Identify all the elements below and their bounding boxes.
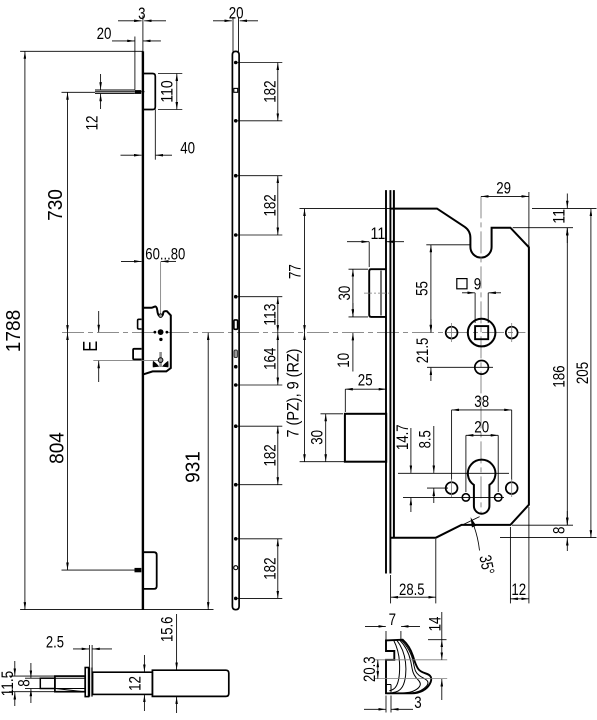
svg-text:186: 186 xyxy=(549,365,568,387)
svg-text:12: 12 xyxy=(82,116,101,131)
svg-text:8: 8 xyxy=(14,679,33,686)
square follower label xyxy=(457,279,467,289)
dim 182 b xyxy=(277,176,279,235)
svg-text:7 (PZ), 9 (RZ): 7 (PZ), 9 (RZ) xyxy=(284,349,303,438)
dim 8 (detail) xyxy=(30,663,32,678)
svg-text:10: 10 xyxy=(334,353,353,368)
screw holes (cylinder level) xyxy=(446,482,458,494)
detail head: step lines xyxy=(386,684,391,686)
vertical centerline xyxy=(480,196,482,514)
dim 8 (bottom right) xyxy=(566,511,568,525)
dim 11 (latch protrusion) xyxy=(368,242,370,267)
nut (follower) xyxy=(468,319,496,347)
svg-text:804: 804 xyxy=(47,432,69,464)
top shoot-bolt rod xyxy=(95,89,135,91)
screw holes (nut level) xyxy=(446,327,458,339)
dim 9 (square) xyxy=(474,293,476,323)
dim 182 a xyxy=(277,63,279,121)
svg-text:11: 11 xyxy=(371,224,386,243)
dim 730 xyxy=(67,92,69,332)
lock case outline xyxy=(390,209,529,538)
svg-text:205: 205 xyxy=(573,362,592,384)
small holes beside cylinder xyxy=(462,494,469,501)
35 deg chamfer extension xyxy=(447,517,480,533)
svg-text:25: 25 xyxy=(358,371,373,390)
dim 14 (detail) xyxy=(428,639,447,641)
dim 12 (rod) xyxy=(100,74,102,90)
svg-text:60...80: 60...80 xyxy=(145,245,185,264)
dim 20 (small holes) xyxy=(465,435,467,492)
dim 25 (bolt throw) xyxy=(344,389,346,412)
housing back extension xyxy=(154,110,156,160)
svg-text:12: 12 xyxy=(511,580,526,599)
dim 20 (strip width) xyxy=(213,20,232,22)
dim 205 xyxy=(500,537,597,539)
svg-text:3: 3 xyxy=(138,4,145,23)
dim 12 (bottom) xyxy=(509,527,511,603)
dim 14.7 xyxy=(410,428,412,473)
latch bolt (front) xyxy=(369,269,386,317)
svg-text:164: 164 xyxy=(260,348,279,370)
euro cylinder hole xyxy=(468,460,496,514)
detail latch: dim 2.5 xyxy=(88,645,90,668)
detail latch: flange xyxy=(85,668,88,697)
face plate front view (strip) xyxy=(232,51,239,609)
dim 110 xyxy=(158,73,182,75)
lower hole below nut xyxy=(475,361,489,375)
detail latch: plate section xyxy=(89,668,91,697)
strip slot (cylinder) xyxy=(234,320,238,329)
dim E xyxy=(93,359,158,361)
deadbolt (front) xyxy=(345,414,386,462)
dim 28.5 xyxy=(390,575,392,603)
pin extension xyxy=(62,569,135,571)
dim 30 (bolt) xyxy=(321,413,344,415)
strip width extensions xyxy=(232,17,234,52)
dim 11.5 xyxy=(14,661,16,676)
lower dot xyxy=(159,338,162,341)
top extension to 1788 xyxy=(20,50,143,52)
dim 3 (detail) xyxy=(385,696,387,713)
svg-text:29: 29 xyxy=(496,178,511,197)
svg-text:20.3: 20.3 xyxy=(360,656,379,682)
bottom hook pin xyxy=(135,568,142,572)
svg-text:77: 77 xyxy=(286,264,305,279)
dim 20.3 xyxy=(377,660,379,679)
detail head: reference lines xyxy=(374,659,447,661)
centerline (lock axis) xyxy=(62,332,525,334)
dim 15.6 xyxy=(176,648,178,670)
svg-text:30: 30 xyxy=(308,430,327,445)
svg-text:14.7: 14.7 xyxy=(393,424,412,450)
svg-text:11: 11 xyxy=(549,209,568,224)
detail head: outline xyxy=(386,640,431,694)
dim 30 (latch) xyxy=(349,268,369,270)
detail head: contour curves xyxy=(389,640,399,691)
strip slot (bolt) xyxy=(234,350,237,358)
svg-text:55: 55 xyxy=(413,281,432,296)
detail latch: spring body xyxy=(93,672,153,694)
dim 931 xyxy=(207,333,209,610)
dim 40 xyxy=(121,154,142,156)
dim 12 (detail) xyxy=(143,655,145,672)
central gear box xyxy=(144,306,171,374)
cylinder center extension xyxy=(398,472,509,474)
lock case left wall xyxy=(393,190,395,537)
detail latch: nose xyxy=(40,678,55,688)
detail latch: extensions xyxy=(9,675,55,677)
svg-text:20: 20 xyxy=(474,417,489,436)
hook pivot symbol xyxy=(159,352,162,367)
dim 113 xyxy=(277,297,279,333)
strip open circle xyxy=(234,566,238,570)
svg-text:931: 931 xyxy=(183,451,205,483)
svg-text:182: 182 xyxy=(260,444,279,466)
face plate top extension xyxy=(142,16,144,52)
svg-text:E: E xyxy=(80,341,102,352)
dim 60...80 (backset) xyxy=(121,260,142,262)
svg-text:21.5: 21.5 xyxy=(413,338,432,364)
dim 8.5 xyxy=(433,426,435,473)
dim 20 (pin offset) xyxy=(134,37,136,90)
svg-text:730: 730 xyxy=(45,189,67,221)
bottom hook housing xyxy=(143,552,157,589)
top hook housing xyxy=(144,74,156,110)
dim 77 xyxy=(300,208,391,210)
rod extension xyxy=(62,91,96,93)
dim 21.5 xyxy=(430,319,432,332)
svg-text:20: 20 xyxy=(97,24,112,43)
svg-text:12: 12 xyxy=(126,676,145,691)
detail latch: head xyxy=(55,676,85,692)
svg-text:40: 40 xyxy=(180,139,195,158)
face plate (side view) xyxy=(142,51,144,609)
strip rivets xyxy=(234,61,238,65)
dim 55 xyxy=(426,244,470,246)
svg-text:182: 182 xyxy=(260,80,279,102)
dim 182 c xyxy=(277,426,279,485)
svg-text:7: 7 xyxy=(389,610,396,629)
deadbolt (side) xyxy=(133,349,141,360)
35 deg leader xyxy=(471,517,477,527)
svg-text:20: 20 xyxy=(229,4,244,23)
svg-text:113: 113 xyxy=(260,304,279,326)
svg-text:1788: 1788 xyxy=(3,310,25,352)
nut center dot xyxy=(158,329,164,335)
face plate edge lines (right view) xyxy=(385,190,387,573)
svg-text:182: 182 xyxy=(260,558,279,580)
dim 38 xyxy=(451,410,453,480)
gear box notch hole xyxy=(159,314,163,318)
dim 1788 xyxy=(24,51,26,609)
svg-text:8.5: 8.5 xyxy=(416,430,435,448)
nut side dots xyxy=(154,331,157,334)
strip square mark xyxy=(234,88,238,92)
backset extension xyxy=(160,261,162,314)
svg-text:14: 14 xyxy=(426,617,445,632)
bottom extension xyxy=(20,609,213,611)
dim 804 xyxy=(67,333,69,570)
dim 186 xyxy=(512,524,573,526)
latch (side) xyxy=(138,319,142,329)
dim 11 (top right) xyxy=(532,208,597,210)
dim 10 xyxy=(352,303,354,317)
svg-text:35°: 35° xyxy=(475,553,498,576)
detail latch: guide xyxy=(152,670,228,696)
dim 182 d xyxy=(277,539,279,599)
svg-text:9: 9 xyxy=(474,275,481,294)
dim 3 (plate thickness) xyxy=(118,20,142,22)
svg-text:3: 3 xyxy=(414,693,421,712)
svg-text:15.6: 15.6 xyxy=(157,617,176,643)
dim 29 xyxy=(528,192,530,247)
rod pin xyxy=(135,90,141,94)
svg-text:38: 38 xyxy=(474,392,489,411)
svg-text:8: 8 xyxy=(549,527,568,534)
svg-text:2.5: 2.5 xyxy=(46,633,64,652)
strip dim extensions xyxy=(238,62,283,64)
dim 7 (PZ), 9 (RZ) xyxy=(300,461,345,463)
dim 164 xyxy=(277,333,279,385)
svg-text:110: 110 xyxy=(158,80,177,102)
dim 7 (detail) xyxy=(385,631,387,640)
svg-text:30: 30 xyxy=(335,286,354,301)
svg-text:28.5: 28.5 xyxy=(399,580,425,599)
svg-text:182: 182 xyxy=(260,194,279,216)
